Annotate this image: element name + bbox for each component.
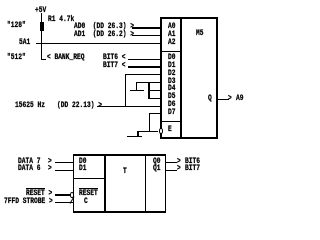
node BIT6 label top [103,54,125,62]
overline RESET inside [79,188,98,189]
T right divider [145,154,146,212]
T left divider [104,154,105,212]
pin Q [208,95,212,103]
resistor R1 body [40,22,45,30]
wire AD1 to A1 [132,35,162,36]
T pin C [84,198,88,206]
T label [123,168,127,176]
resistor R1 value label [48,16,74,24]
T pin Q0 [153,158,161,166]
wire E row [137,131,157,132]
wire vertical D7 to E row [149,113,150,132]
node AD0 label [74,23,134,31]
wire DATA7 to T D0 [55,162,75,163]
wire 7FFD STROBE to T C [55,202,75,203]
wire ground stub D3 [136,82,137,90]
wire DATA6 to T D1 [55,170,75,171]
wire Q1 output [166,170,178,171]
node BIT7 label bottom [185,165,200,173]
wire AD0 to A0 [132,27,162,28]
pin E [168,126,172,134]
node BANK_REQ label [47,54,84,62]
wire Q output [217,99,229,100]
pin D6 [168,101,176,109]
arrowhead Q output [228,95,232,103]
T pin D1 [79,165,87,173]
bubble RESET input [70,192,74,197]
M5 label [196,30,204,38]
wire resistor to SA1 row [41,30,42,44]
wire vertical D2 to D6 row [125,74,126,107]
wire BIT6 to D0 [128,59,162,60]
node BIT7 label top [103,62,125,70]
register T box [73,154,166,155]
node DATA 7 label [18,158,52,166]
ground bar lower [127,136,142,137]
wire D4 stub [148,90,161,91]
arrowhead Q1 [177,165,181,173]
node SA1 label [19,39,30,47]
wire RESET to T [55,194,71,195]
overline RESET outside [26,188,45,189]
pin D4 [168,85,176,93]
T separator under D1 [73,178,106,179]
pin D1 [168,62,176,70]
pin D5 [168,93,176,101]
wire D2 row [125,74,162,75]
ground bar upper [130,90,145,91]
clock slash marker [69,197,74,204]
wire +5V stub [41,13,42,22]
node A9 label [236,95,244,103]
T pin RESET [79,190,98,198]
multiplexer M5 box [160,17,217,18]
wire down to BANK_REQ row [41,43,42,60]
wire bus D3-D5 [148,82,149,99]
M5 separator D/E [160,121,181,122]
pin D2 [168,70,176,78]
power +5V label [35,7,46,15]
wire D7 row [149,113,161,114]
node 15625 Hz label [15,102,45,110]
node DATA 6 label [18,165,52,173]
node 7FFD STROBE label [4,198,53,206]
M5 separator A/D [160,51,181,52]
wire BANK_REQ stub [41,59,46,60]
pin D0 [168,54,176,62]
pin A2 [168,39,176,47]
wire D3 row [136,82,161,83]
wire D5 stub [148,98,161,99]
bubble E input [159,128,163,133]
wire SA1 row to chip A2 [36,43,161,44]
M5 pin column divider [180,17,181,138]
pin D3 [168,78,176,86]
wire 15625 Hz to D6 [97,106,161,107]
wire BIT7 to D1 [128,66,162,67]
wire vertical E to ground [137,131,138,137]
node "128" label [7,22,26,30]
node AD1 label [74,31,134,39]
wire Q0 output [166,162,178,163]
T pin D0 [79,158,87,166]
node BIT6 label bottom [185,158,200,166]
node "512" label [7,54,26,62]
pin A0 [168,23,176,31]
arrowhead Q0 [177,158,181,166]
pin D7 [168,109,176,117]
T pin Q1 [153,165,161,173]
pin A1 [168,31,176,39]
node RESET label outside [26,190,52,198]
